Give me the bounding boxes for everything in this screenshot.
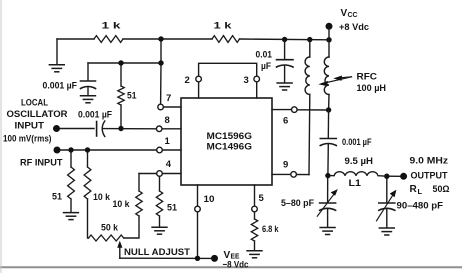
node 0.01uF cap tap: [282, 37, 287, 42]
wire pin4 lead: [162, 173, 181, 175]
ground under 90-480pF: [379, 228, 395, 235]
resistor 1k left: [94, 36, 123, 43]
inductor RFC coil B: [324, 57, 329, 95]
trimmer 5-80pF bottom stem: [327, 209, 329, 227]
wire LO input to coupling cap: [57, 128, 95, 130]
wire 6.8k bottom lead: [254, 241, 256, 251]
svg-text:7: 7: [166, 93, 171, 104]
node top rail / pin7 branch: [158, 36, 163, 41]
wire top rail: [57, 38, 94, 40]
svg-text:50Ω: 50Ω: [433, 184, 450, 195]
trimmer 90-480pF plates: [379, 202, 395, 204]
resistor 51c: [156, 191, 162, 216]
pin 3 terminal: [254, 76, 260, 82]
pin 1 terminal: [157, 147, 163, 153]
border left edge: [0, 0, 2, 273]
wire vertical to pin 7: [160, 39, 162, 104]
svg-text:R: R: [410, 184, 418, 195]
resistor 51a: [118, 86, 124, 105]
svg-text:100 µH: 100 µH: [357, 83, 387, 94]
resistor 51b: [68, 167, 75, 199]
arrowhead RFC short: [333, 76, 342, 81]
terminal output: [400, 173, 407, 180]
terminal RF input: [54, 147, 61, 154]
Vcc supply dot: [326, 23, 333, 30]
svg-text:V: V: [341, 8, 348, 19]
wire pin8 lead: [162, 128, 181, 130]
wire pin9 to coil A corner: [297, 174, 310, 176]
svg-text:5–80 pF: 5–80 pF: [281, 198, 314, 209]
wire pin7 lead: [163, 106, 181, 108]
trimmer 90-480pF stem: [386, 176, 388, 202]
svg-text:1: 1: [165, 136, 171, 147]
svg-text:NULL ADJUST: NULL ADJUST: [124, 247, 190, 258]
svg-text:3: 3: [244, 75, 249, 86]
border bottom edge: [0, 266, 462, 268]
svg-text:50 k: 50 k: [101, 222, 119, 233]
svg-text:0.001 µF: 0.001 µF: [342, 137, 372, 148]
pin 8 terminal: [156, 126, 162, 132]
svg-text:51: 51: [167, 202, 178, 213]
wire coupling cap to pin8: [103, 128, 156, 130]
svg-text:9: 9: [283, 159, 288, 170]
wire pin4 corner down: [138, 174, 140, 192]
capacitor 0.001uF coupling plates: [96, 122, 98, 137]
wire pin2 stub: [198, 82, 200, 98]
trimmer 5-80pF arrow shaft: [317, 193, 335, 216]
ground under 6.8k: [246, 251, 262, 258]
svg-text:OSCILLATOR: OSCILLATOR: [7, 109, 68, 120]
ground under 5-80pF: [319, 228, 335, 235]
wire pin1 lead: [162, 149, 181, 151]
svg-text:0.001 µF: 0.001 µF: [43, 80, 78, 91]
svg-text:OUTPUT: OUTPUT: [411, 170, 448, 181]
wire coil B down to pin6 node: [328, 95, 330, 111]
trimmer 90-480pF bottom stem: [386, 209, 388, 228]
ground under 0.01uF: [276, 83, 292, 90]
terminal LO input: [53, 125, 60, 132]
capacitor 0.001uF shunt plates: [81, 80, 96, 82]
svg-text:MC1496G: MC1496G: [207, 142, 253, 153]
svg-text:51: 51: [52, 191, 63, 202]
svg-text:4: 4: [166, 159, 172, 170]
arrowhead wiper: [117, 241, 122, 248]
wire tank node to output: [387, 175, 401, 177]
svg-text:9.0 MHz: 9.0 MHz: [410, 155, 449, 166]
wire RF input row: [57, 149, 157, 151]
wire coil A top lead: [309, 40, 311, 57]
pin 4 terminal: [157, 171, 163, 177]
node LO row 51a: [118, 126, 123, 131]
wire 10kb down to pot: [124, 216, 139, 238]
svg-text:RF INPUT: RF INPUT: [20, 157, 63, 168]
wire 51c bottom lead: [159, 216, 161, 227]
svg-text:µF: µF: [261, 61, 271, 72]
svg-text:MC1596G: MC1596G: [207, 131, 253, 142]
pin 2 terminal: [196, 76, 202, 82]
wire 10ka top lead: [87, 150, 89, 167]
pin 10 terminal: [195, 206, 201, 212]
arrowhead RFC long: [318, 81, 328, 86]
wire pin5 stub: [254, 185, 256, 206]
terminal Vee: [211, 255, 218, 262]
wire 10ka down to pot: [88, 199, 89, 238]
resistor 1k right: [212, 36, 240, 43]
wire top rail middle: [123, 38, 212, 40]
pin 9 terminal: [291, 172, 297, 178]
wiper stem 50k: [119, 247, 121, 259]
capacitor 0.01uF stem bottom: [284, 66, 286, 83]
wire pin10 stub: [197, 185, 199, 206]
svg-text:9.5 µH: 9.5 µH: [345, 156, 374, 167]
svg-text:INPUT: INPUT: [15, 121, 45, 132]
trimmer 5-80pF stem: [327, 176, 329, 203]
svg-text:−8 Vdc: −8 Vdc: [223, 259, 249, 270]
wire null adjust rail: [120, 257, 215, 259]
node RF row 51b: [68, 147, 73, 152]
node null rail pin10: [195, 256, 200, 261]
svg-text:5: 5: [259, 193, 265, 204]
wire pin10 down to null rail: [197, 212, 199, 258]
wire pin9 lead: [272, 173, 291, 175]
wire 51c top lead: [159, 176, 161, 191]
svg-text:1 k: 1 k: [214, 21, 233, 32]
svg-text:1 k: 1 k: [102, 21, 122, 32]
wire pin3 stub: [256, 82, 258, 98]
ground under 51b: [63, 213, 79, 220]
svg-text:6.8 k: 6.8 k: [262, 224, 279, 235]
pin 7 terminal: [158, 104, 164, 110]
inductor RFC coil A: [305, 57, 310, 95]
svg-text:2: 2: [185, 75, 190, 86]
node bypass row left: [118, 60, 123, 65]
svg-text:CC: CC: [348, 10, 359, 19]
svg-text:LOCAL: LOCAL: [21, 97, 48, 108]
wire Vcc drop: [328, 26, 330, 57]
arrow RFC pointer short: [337, 77, 352, 78]
svg-text:8: 8: [165, 115, 170, 126]
pin 6 terminal: [292, 107, 298, 113]
trimmer 90-480pF arrow shaft: [377, 195, 394, 221]
ground under 0.001uF shunt: [80, 96, 96, 103]
wire pin5 to 6.8k: [254, 212, 256, 219]
arrow RFC pointer long: [322, 77, 352, 84]
wire 51a top lead: [120, 63, 122, 86]
svg-text:L1: L1: [349, 178, 362, 189]
wire 51a bottom lead: [120, 105, 122, 129]
wire pin6 to coil B node: [297, 109, 328, 111]
ground under 51c: [151, 227, 167, 234]
resistor 10kb: [136, 191, 142, 216]
resistor 10ka: [84, 167, 91, 199]
wire 0.001uF to tank node: [327, 145, 329, 176]
svg-text:10 k: 10 k: [113, 199, 131, 210]
pin 5 terminal: [252, 206, 258, 212]
node coil A top: [307, 37, 312, 42]
wire cap to ground: [87, 87, 89, 96]
wire pin2-pin3 bracket: [199, 63, 257, 76]
inductor L1: [331, 172, 384, 176]
svg-text:10: 10: [204, 194, 215, 205]
wire left drop to ground: [56, 39, 58, 65]
resistor 6.8k: [251, 219, 257, 241]
node bypass row right: [158, 60, 163, 65]
svg-text:90–480 pF: 90–480 pF: [397, 200, 444, 211]
wire top rail right: [240, 38, 330, 41]
IC U1 MC1596G box: [181, 98, 272, 185]
svg-text:0.01: 0.01: [256, 49, 273, 60]
svg-text:10 k: 10 k: [93, 192, 111, 203]
arrowhead trimmer 5-80pF: [331, 189, 338, 196]
node Vcc entry: [326, 37, 331, 42]
trimmer 5-80pF plates: [320, 202, 336, 204]
svg-text:+8 Vdc: +8 Vdc: [339, 22, 369, 33]
potentiometer 50k body: [89, 235, 124, 241]
svg-text:L: L: [418, 187, 423, 196]
ground top-left: [49, 65, 65, 72]
wire 51b top lead: [70, 150, 72, 167]
wire coil B node down to 0.001uF: [327, 110, 329, 138]
capacitor 0.01uF stem top: [284, 40, 286, 60]
svg-text:6: 6: [283, 115, 288, 126]
node tank right: [384, 174, 389, 179]
wire 51b bottom lead: [70, 199, 72, 212]
capacitor 0.001uF output plates: [320, 138, 336, 140]
svg-text:51: 51: [127, 90, 137, 101]
svg-text:RFC: RFC: [357, 71, 378, 82]
wire bypass row y63: [88, 62, 161, 64]
wire cap drop: [87, 63, 89, 81]
wire pin4 row: [139, 173, 157, 175]
node RF row 10ka: [85, 147, 90, 152]
wire coil A down to pin9 row: [308, 95, 311, 175]
arrowhead trimmer 90-480pF: [390, 190, 397, 198]
wire pin6 lead: [272, 109, 292, 111]
svg-text:100 mV(rms): 100 mV(rms): [3, 133, 52, 144]
node tank left: [325, 173, 330, 178]
capacitor 0.01uF plates: [277, 59, 294, 61]
svg-text:0.001 µF: 0.001 µF: [78, 109, 112, 120]
